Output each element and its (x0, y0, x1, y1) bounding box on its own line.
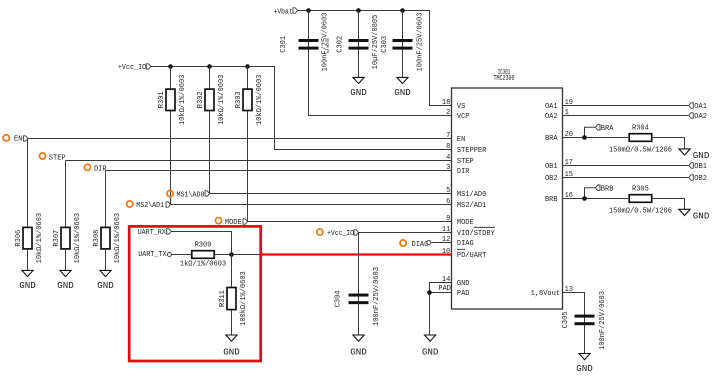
svg-text:EN: EN (457, 136, 465, 144)
svg-text:R306: R306 (15, 230, 23, 247)
svg-text:7: 7 (446, 132, 450, 140)
svg-text:GND: GND (223, 346, 240, 357)
svg-text:OB2: OB2 (694, 175, 707, 183)
wire net BRA (563, 137, 629, 139)
svg-text:VCP: VCP (457, 113, 470, 121)
svg-text:1,8Vout: 1,8Vout (531, 290, 560, 298)
junction BRA (582, 135, 587, 140)
node +Vcc_IO label mid (317, 229, 359, 238)
svg-text:UART_TX: UART_TX (138, 251, 167, 259)
junction UART node (229, 252, 234, 257)
svg-text:R311: R311 (219, 290, 227, 307)
node OA2 output label (689, 113, 707, 121)
node DIR label (84, 164, 107, 173)
svg-text:C305: C305 (562, 311, 570, 328)
svg-text:+Vbat: +Vbat (274, 9, 293, 17)
wire net DIR (106, 170, 452, 172)
wire net +Vbat rail (298, 11, 452, 106)
svg-text:R307: R307 (53, 230, 61, 247)
wire net PD/UART highlighted red (262, 253, 452, 255)
svg-text:GND: GND (394, 87, 411, 98)
svg-text:100nF/25V/0603: 100nF/25V/0603 (416, 13, 424, 72)
wire C303 branch (402, 11, 404, 78)
svg-text:GND: GND (350, 87, 367, 98)
ground below R311 (223, 335, 240, 357)
wire STEP branch to R307 (65, 161, 67, 228)
ground right of R305 (679, 209, 710, 221)
junction +Vcc_IO/R301 (168, 64, 173, 69)
svg-text:STEP: STEP (49, 154, 66, 162)
capacitor C305 (562, 291, 607, 350)
svg-text:UART_RX: UART_RX (138, 229, 167, 237)
svg-text:R303: R303 (235, 91, 243, 108)
svg-text:R308: R308 (93, 230, 101, 247)
wire 1.8Vout pin 13 to C305 (563, 293, 585, 354)
svg-text:EN: EN (14, 136, 22, 144)
svg-text:OA1: OA1 (545, 103, 558, 111)
svg-text:10kΩ/1%/0603: 10kΩ/1%/0603 (179, 75, 187, 125)
svg-text:MS2/AD1: MS2/AD1 (457, 202, 486, 210)
wire C301 to VCP pin 2 (309, 11, 452, 116)
svg-text:C302: C302 (337, 36, 345, 53)
svg-text:PAD: PAD (457, 290, 470, 298)
svg-text:6: 6 (446, 198, 450, 206)
svg-text:10kΩ/1%/0603: 10kΩ/1%/0603 (36, 213, 44, 263)
wire GND pin 14 to PAD junction (430, 283, 452, 293)
wire net MODE (248, 221, 452, 223)
svg-text:GND: GND (19, 280, 36, 291)
wire DIR branch to R308 (105, 171, 107, 228)
resistor R309 (180, 242, 226, 269)
svg-text:+Vcc_IO: +Vcc_IO (327, 230, 354, 238)
svg-text:OA1: OA1 (694, 103, 707, 111)
svg-text:GND: GND (457, 280, 470, 288)
svg-text:TMC2300: TMC2300 (494, 75, 515, 83)
ground below R308 (97, 270, 114, 290)
resistor R304 (609, 125, 672, 155)
svg-text:GND: GND (693, 211, 710, 222)
svg-text:10kΩ/1%/0603: 10kΩ/1%/0603 (114, 213, 122, 263)
wire net BRB (563, 198, 629, 200)
resistor R301 (158, 75, 187, 125)
svg-text:100kΩ/1%/0603: 100kΩ/1%/0603 (240, 271, 248, 326)
wire R307 to ground (65, 249, 67, 271)
wire net +Vcc_IO rail to STEPPER pin 8 (151, 67, 452, 150)
node OB2 output label (689, 175, 707, 183)
svg-text:DIAG: DIAG (412, 241, 429, 249)
node MS2\AD1 label (127, 201, 171, 210)
svg-text:OA2: OA2 (694, 113, 707, 121)
svg-text:R305: R305 (632, 186, 649, 194)
svg-text:GND: GND (693, 150, 710, 161)
junction +Vbat/C301 (306, 8, 311, 13)
svg-text:11: 11 (442, 226, 450, 234)
svg-text:10kΩ/1%/0603: 10kΩ/1%/0603 (256, 75, 264, 125)
svg-text:+Vcc_IO: +Vcc_IO (118, 64, 146, 72)
junction +Vcc_IO/R302 (207, 64, 212, 69)
svg-text:GND: GND (57, 280, 74, 291)
wire R303 pull-up to MODE net (247, 67, 249, 222)
wire net EN (28, 138, 452, 140)
svg-text:5: 5 (446, 187, 450, 195)
svg-text:DIR: DIR (457, 168, 470, 176)
node BRA label (596, 125, 615, 133)
svg-text:3: 3 (446, 164, 450, 172)
wire BRB up to label (585, 188, 596, 199)
node UART_TX label (138, 251, 171, 259)
wire net OA2 (563, 115, 689, 117)
svg-text:STEP: STEP (457, 158, 474, 166)
wire net DIAG (431, 242, 452, 244)
node BRB label (596, 185, 614, 193)
svg-text:GND: GND (576, 363, 593, 374)
wire R309 to junction (215, 254, 267, 256)
wire net UART_RX to junction (171, 232, 231, 255)
wire net +Vcc_IO to VIO pin 11 (359, 232, 452, 234)
wire BRA up to label (585, 127, 596, 137)
node DIAG label (400, 240, 431, 249)
node EN label (3, 135, 28, 144)
svg-text:10kΩ/1%/0603: 10kΩ/1%/0603 (218, 75, 226, 125)
svg-text:C301: C301 (280, 36, 288, 53)
node OB1 output label (689, 163, 707, 171)
junction +Vbat/C302 (356, 8, 361, 13)
wire R306 to ground (27, 249, 29, 271)
wire EN branch to R306 (27, 139, 29, 228)
svg-text:18: 18 (442, 99, 450, 107)
wire net OB2 (563, 177, 689, 179)
svg-text:150mΩ/0.5W/1206: 150mΩ/0.5W/1206 (609, 208, 672, 216)
capacitor C304 (335, 267, 381, 326)
svg-text:OA2: OA2 (545, 113, 558, 121)
svg-text:8: 8 (446, 143, 450, 151)
svg-text:GND: GND (97, 280, 114, 291)
ground below C304 (350, 335, 367, 357)
svg-text:R309: R309 (195, 242, 212, 250)
svg-text:OB1: OB1 (545, 163, 558, 171)
svg-text:R304: R304 (632, 125, 649, 133)
svg-text:10kΩ/1%/0603: 10kΩ/1%/0603 (74, 213, 82, 263)
wire R304 to ground (652, 138, 685, 149)
svg-text:VIO/STDBY: VIO/STDBY (457, 230, 496, 238)
svg-text:100nF/25V/0603: 100nF/25V/0603 (373, 267, 381, 326)
resistor R311 (219, 271, 248, 326)
svg-text:2: 2 (446, 109, 450, 117)
wire PAD pin to ground (430, 293, 452, 336)
node +Vcc_IO label top (118, 64, 151, 72)
op-amp U1 IC301 TMC2300 (442, 69, 573, 309)
wire R302 pull-up to MS1 net (209, 67, 211, 194)
svg-text:4: 4 (446, 154, 450, 162)
svg-text:MODE: MODE (457, 219, 474, 227)
ground below C303 (394, 77, 411, 97)
resistor R306 (15, 213, 44, 263)
svg-text:9: 9 (446, 215, 450, 223)
wire net OA1 (563, 105, 689, 107)
svg-text:BRA: BRA (545, 135, 558, 143)
resistor R303 (235, 75, 264, 125)
wire R301 pull-up to MS2 net (170, 67, 172, 205)
svg-text:BRB: BRB (601, 185, 614, 193)
svg-text:10µF/25V/0805: 10µF/25V/0805 (372, 15, 380, 70)
capacitor C303 (381, 13, 424, 72)
ground below C302 (350, 77, 367, 97)
resistor R308 (93, 213, 122, 263)
resistor R302 (197, 75, 226, 125)
wire C302 branch (358, 11, 360, 78)
svg-text:OB2: OB2 (545, 175, 558, 183)
svg-text:100nF/25V/0603: 100nF/25V/0603 (599, 291, 607, 350)
svg-text:PD/UART: PD/UART (457, 252, 486, 260)
svg-text:150mΩ/0.5W/1206: 150mΩ/0.5W/1206 (609, 147, 672, 155)
svg-text:C304: C304 (335, 290, 343, 307)
wire net STEP (66, 160, 452, 162)
svg-text:MS1/AD0: MS1/AD0 (457, 191, 486, 199)
junction +Vcc_IO/R303 (245, 64, 250, 69)
wire net MS2/AD1 (171, 204, 452, 206)
svg-text:1kΩ/1%/0603: 1kΩ/1%/0603 (180, 260, 226, 268)
ground below C305 (576, 354, 593, 374)
svg-text:STEPPER: STEPPER (457, 147, 487, 155)
junction GND/PAD (427, 290, 432, 295)
svg-text:R302: R302 (197, 91, 205, 108)
ground right of R304 (679, 149, 710, 161)
node STEP label (39, 153, 65, 163)
svg-text:OB1: OB1 (694, 163, 707, 171)
ground below R306 (19, 270, 36, 290)
svg-text:GND: GND (350, 346, 367, 357)
wire net MS1/AD0 (210, 193, 452, 195)
svg-text:12: 12 (442, 236, 450, 244)
svg-text:R301: R301 (158, 91, 166, 108)
svg-text:MS1\AD0: MS1\AD0 (177, 192, 205, 200)
node MODE label (215, 218, 247, 227)
svg-text:14: 14 (442, 276, 450, 284)
capacitor C301 (280, 13, 331, 72)
node UART_RX label (138, 229, 172, 237)
svg-text:MS2\AD1: MS2\AD1 (136, 202, 164, 210)
svg-text:10: 10 (442, 248, 450, 256)
svg-text:BRB: BRB (545, 196, 558, 204)
svg-text:BRA: BRA (601, 125, 614, 133)
wire +Vcc_IO branch to C304 (358, 233, 360, 335)
wire R305 to ground (652, 199, 685, 210)
svg-text:C303: C303 (381, 36, 389, 53)
svg-text:PAD: PAD (438, 285, 451, 293)
ground below PAD (422, 335, 439, 357)
resistor R307 (53, 213, 82, 263)
junction BRB (582, 196, 587, 201)
ground below R307 (57, 270, 74, 290)
capacitor C302 (337, 15, 380, 70)
node OA1 output label (689, 103, 707, 111)
wire R308 to ground (105, 249, 107, 271)
wire net UART_TX to R309 (171, 254, 191, 256)
red highlight box UART section (129, 226, 261, 361)
svg-text:GND: GND (422, 346, 439, 357)
wire net OB1 (563, 165, 689, 167)
node +Vbat label (274, 8, 298, 17)
resistor R305 (609, 186, 672, 216)
svg-text:DIAG: DIAG (457, 240, 474, 248)
svg-text:Not Mounted: Not Mounted (326, 38, 331, 53)
node MS1\AD0 label (167, 191, 210, 200)
wire R311 to ground (231, 255, 233, 336)
svg-text:VS: VS (457, 103, 465, 111)
junction +Vbat/C303 (400, 8, 405, 13)
svg-text:DIR: DIR (94, 165, 107, 173)
